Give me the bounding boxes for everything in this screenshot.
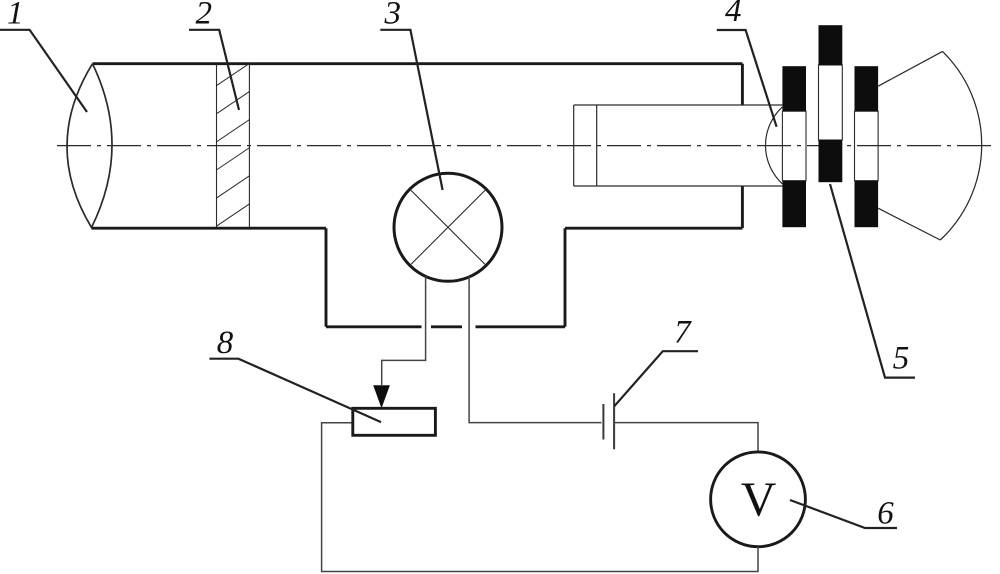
svg-text:4: 4 [725, 0, 742, 29]
svg-text:V: V [741, 472, 776, 527]
svg-text:8: 8 [217, 325, 234, 361]
ring column B (middle, shifted up) [819, 25, 843, 182]
svg-text:2: 2 [195, 0, 212, 32]
dome (rounded emitter tip, 4) [765, 107, 782, 184]
svg-text:5: 5 [893, 341, 910, 377]
leader 7 [614, 351, 698, 406]
leader 1 [0, 30, 87, 112]
capacitor/battery 7 right plate [613, 393, 615, 449]
inner tube (emitter barrel) [574, 105, 783, 186]
wire: bottom return loop [322, 423, 758, 572]
horn (radiation fan) [878, 51, 982, 240]
leader 3 [380, 30, 442, 190]
diaphragm hatched band (component 2) [210, 31, 256, 259]
lamp 3 circle [394, 173, 502, 281]
centerline (optical axis, dash-dot) [57, 145, 997, 147]
wire: lamp left lead [382, 277, 426, 386]
leader 5 [830, 184, 915, 378]
wire: capacitor to voltmeter [614, 423, 758, 452]
svg-text:6: 6 [877, 496, 894, 532]
lens (component 1) [67, 64, 112, 228]
svg-text:7: 7 [674, 315, 692, 351]
ring column A (component 4/5 stack, left) [782, 66, 806, 227]
leader 6 [790, 500, 897, 528]
svg-text:3: 3 [383, 0, 401, 32]
leader 2 [189, 30, 239, 110]
tube body outline (thick) [92, 64, 743, 327]
leader 8 [209, 359, 381, 422]
ring column C (right) [855, 66, 879, 227]
lamp 3 cross [410, 189, 486, 265]
resistor 8 body [353, 408, 436, 435]
arrow into resistor 8 [373, 385, 390, 408]
voltmeter 6 circle [711, 452, 806, 547]
leader 4 [717, 30, 777, 127]
svg-text:1: 1 [7, 0, 24, 32]
wire: lamp right lead to capacitor [469, 277, 601, 423]
capacitor/battery 7 left plate [602, 404, 604, 440]
